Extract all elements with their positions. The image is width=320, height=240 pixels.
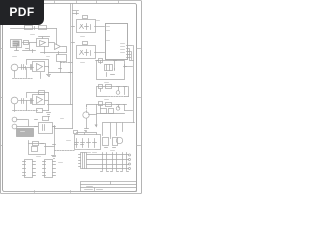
U1 pin stubs: [127, 46, 134, 61]
ground under Q3: [85, 129, 89, 132]
border zone ticks top: [55, 1, 119, 4]
amp stage A3: [97, 105, 125, 115]
resistor R12 (zigzag): [13, 78, 33, 80]
wire: LB bottoms: [15, 101, 49, 112]
capacitor C13: [43, 117, 49, 121]
U6 triangle: [37, 64, 43, 71]
wire: feedback loop: [39, 37, 55, 43]
capacitor C8: [74, 131, 78, 134]
LD inner resistor: [32, 147, 38, 152]
wire: Q2 out: [95, 52, 105, 54]
diode array box: [75, 135, 101, 150]
regulator U2: [11, 40, 22, 48]
capacitor C9: [22, 65, 24, 70]
connector J2: [81, 153, 87, 169]
junction: [25, 67, 26, 70]
diode D1: [75, 139, 79, 148]
junction dots A1: [96, 61, 127, 77]
transistor block Q1: [77, 20, 96, 33]
op-amp U7: [33, 95, 45, 105]
matrix node circles: [129, 154, 131, 170]
resistor R14 (zigzag): [13, 110, 38, 112]
wire: A1 to bus: [125, 66, 133, 68]
resistor R13 (zigzag): [61, 62, 74, 64]
connector J1 circles: [12, 117, 17, 129]
power bus line 2: [72, 4, 74, 129]
wire: Q3 branch arrow: [89, 115, 97, 125]
wire: MK2 out: [19, 100, 34, 102]
junction marks: [26, 49, 33, 53]
pin number marks: [107, 27, 125, 53]
capacitor C7: [99, 102, 103, 106]
resistor R5: [106, 85, 112, 89]
capacitor C4: [83, 42, 88, 45]
J2 label: [81, 149, 95, 151]
transistor block Q2: [77, 46, 96, 59]
resistor R15 (zigzag): [55, 150, 75, 152]
U8 pins: [23, 162, 36, 176]
transistor Q3: [83, 112, 89, 118]
wire: bus stub 1: [73, 10, 79, 12]
amp stage A2: [97, 87, 129, 97]
IC U8 (DIP): [25, 160, 33, 178]
diode D3: [87, 139, 91, 148]
ground G1: [47, 75, 51, 77]
title block: [81, 182, 137, 192]
arrowhead: [95, 125, 98, 128]
wire: bottom rail: [41, 47, 67, 55]
capacitor C12: [31, 99, 32, 104]
resistor R9: [109, 109, 114, 114]
capacitor C10: [31, 65, 32, 70]
wire: A2 bottom: [97, 87, 129, 97]
op-amp U6: [33, 62, 45, 72]
wire: to bus: [123, 122, 135, 124]
capacitor C5: [99, 59, 103, 63]
wire: U4 out: [62, 47, 67, 53]
wire: drop: [59, 62, 62, 73]
relay K1 (filled): [17, 129, 34, 137]
resistor R11: [113, 138, 118, 146]
wire: bus stub 2: [73, 12, 79, 15]
keypad matrix columns: [103, 153, 127, 171]
title block text marks: [85, 187, 103, 190]
diode D4: [93, 139, 97, 148]
wire: Q1 out: [95, 26, 105, 28]
U9 label mark: [59, 162, 63, 164]
wire: A3 to bus: [125, 110, 133, 112]
mic input MK1: [11, 64, 18, 71]
filter block LD: [29, 144, 46, 155]
wire: LD stub: [29, 141, 44, 144]
U9 pins: [43, 162, 56, 176]
J2 pins: [79, 155, 81, 167]
net bus right: [133, 46, 135, 123]
wire: U6 feedback: [27, 60, 49, 68]
matrix column end ticks: [101, 171, 129, 173]
IC U5: [105, 65, 113, 71]
wire: U7 out: [45, 93, 49, 111]
wire: Q3 vertical: [87, 105, 97, 129]
power bus line 1: [70, 4, 72, 105]
capacitor C6: [99, 85, 103, 89]
sheet outer border: [1, 1, 142, 194]
text labels (designators): [13, 21, 115, 157]
resistor R7: [106, 103, 112, 107]
A3 bottom row: [97, 105, 127, 114]
filter block: [39, 123, 53, 134]
mic input MK2: [11, 97, 18, 104]
wire: to bus: [49, 72, 73, 74]
resistor R8: [101, 109, 107, 114]
resistor R18 (vertical zigzag): [86, 106, 88, 110]
ground G2: [52, 156, 56, 159]
capacitor C3: [83, 16, 88, 19]
resistor R3: [39, 26, 47, 30]
junction: [53, 126, 56, 129]
op-amp U3: [37, 39, 49, 47]
resistor R10: [103, 138, 109, 146]
capacitor C16: [39, 91, 45, 95]
border zone ticks bottom: [35, 191, 71, 193]
bus junction marks: [69, 27, 75, 73]
amp stage A1 box: [97, 61, 125, 80]
resistor R17: [37, 109, 43, 113]
wire: U6 out: [45, 67, 49, 74]
U5 inner pins: [107, 65, 110, 71]
keypad matrix rows: [103, 155, 129, 169]
sheet inner border: [3, 4, 137, 192]
U2 label fill: [13, 41, 20, 47]
ground G3: [47, 113, 51, 117]
wire: MK1 out: [19, 67, 34, 69]
capacitor C11: [22, 99, 24, 104]
wire: J2 bus: [87, 155, 103, 169]
wire: J1 out: [17, 120, 38, 127]
wire: LD out: [45, 147, 55, 155]
IC U9 (DIP): [45, 160, 53, 178]
op-amp U4 triangle: [55, 44, 61, 50]
capacitor C14: [33, 142, 39, 146]
output stage grid: [103, 123, 123, 139]
Q1 inner symbols: [80, 24, 91, 30]
border zone ticks left: [1, 49, 3, 146]
PDF badge: [0, 0, 44, 25]
wire: above diode box: [77, 133, 97, 135]
U7 triangle: [37, 97, 43, 104]
junction marks: [105, 147, 116, 149]
capacitor C2: [24, 41, 29, 45]
wire: net LB-link: [48, 104, 73, 106]
Q2 inner symbols: [80, 50, 91, 56]
IC U1: [106, 24, 128, 60]
wire: node B drop: [56, 29, 58, 45]
diode D2: [81, 139, 85, 148]
component block: [57, 55, 67, 62]
wire: LC out: [53, 127, 73, 147]
border zone ticks right: [137, 49, 141, 146]
wire: U7 feedback: [27, 93, 49, 98]
wire: rail under badge: [11, 27, 57, 30]
junction marks: [35, 120, 38, 127]
text marks: [87, 152, 97, 154]
U3 triangle: [40, 41, 46, 46]
resistor R6 (zigzag): [109, 96, 125, 98]
resistor R2: [25, 26, 33, 30]
wire: node A: [15, 43, 37, 51]
transistor Q4: [116, 137, 122, 143]
wire: LA bottoms: [15, 69, 41, 79]
